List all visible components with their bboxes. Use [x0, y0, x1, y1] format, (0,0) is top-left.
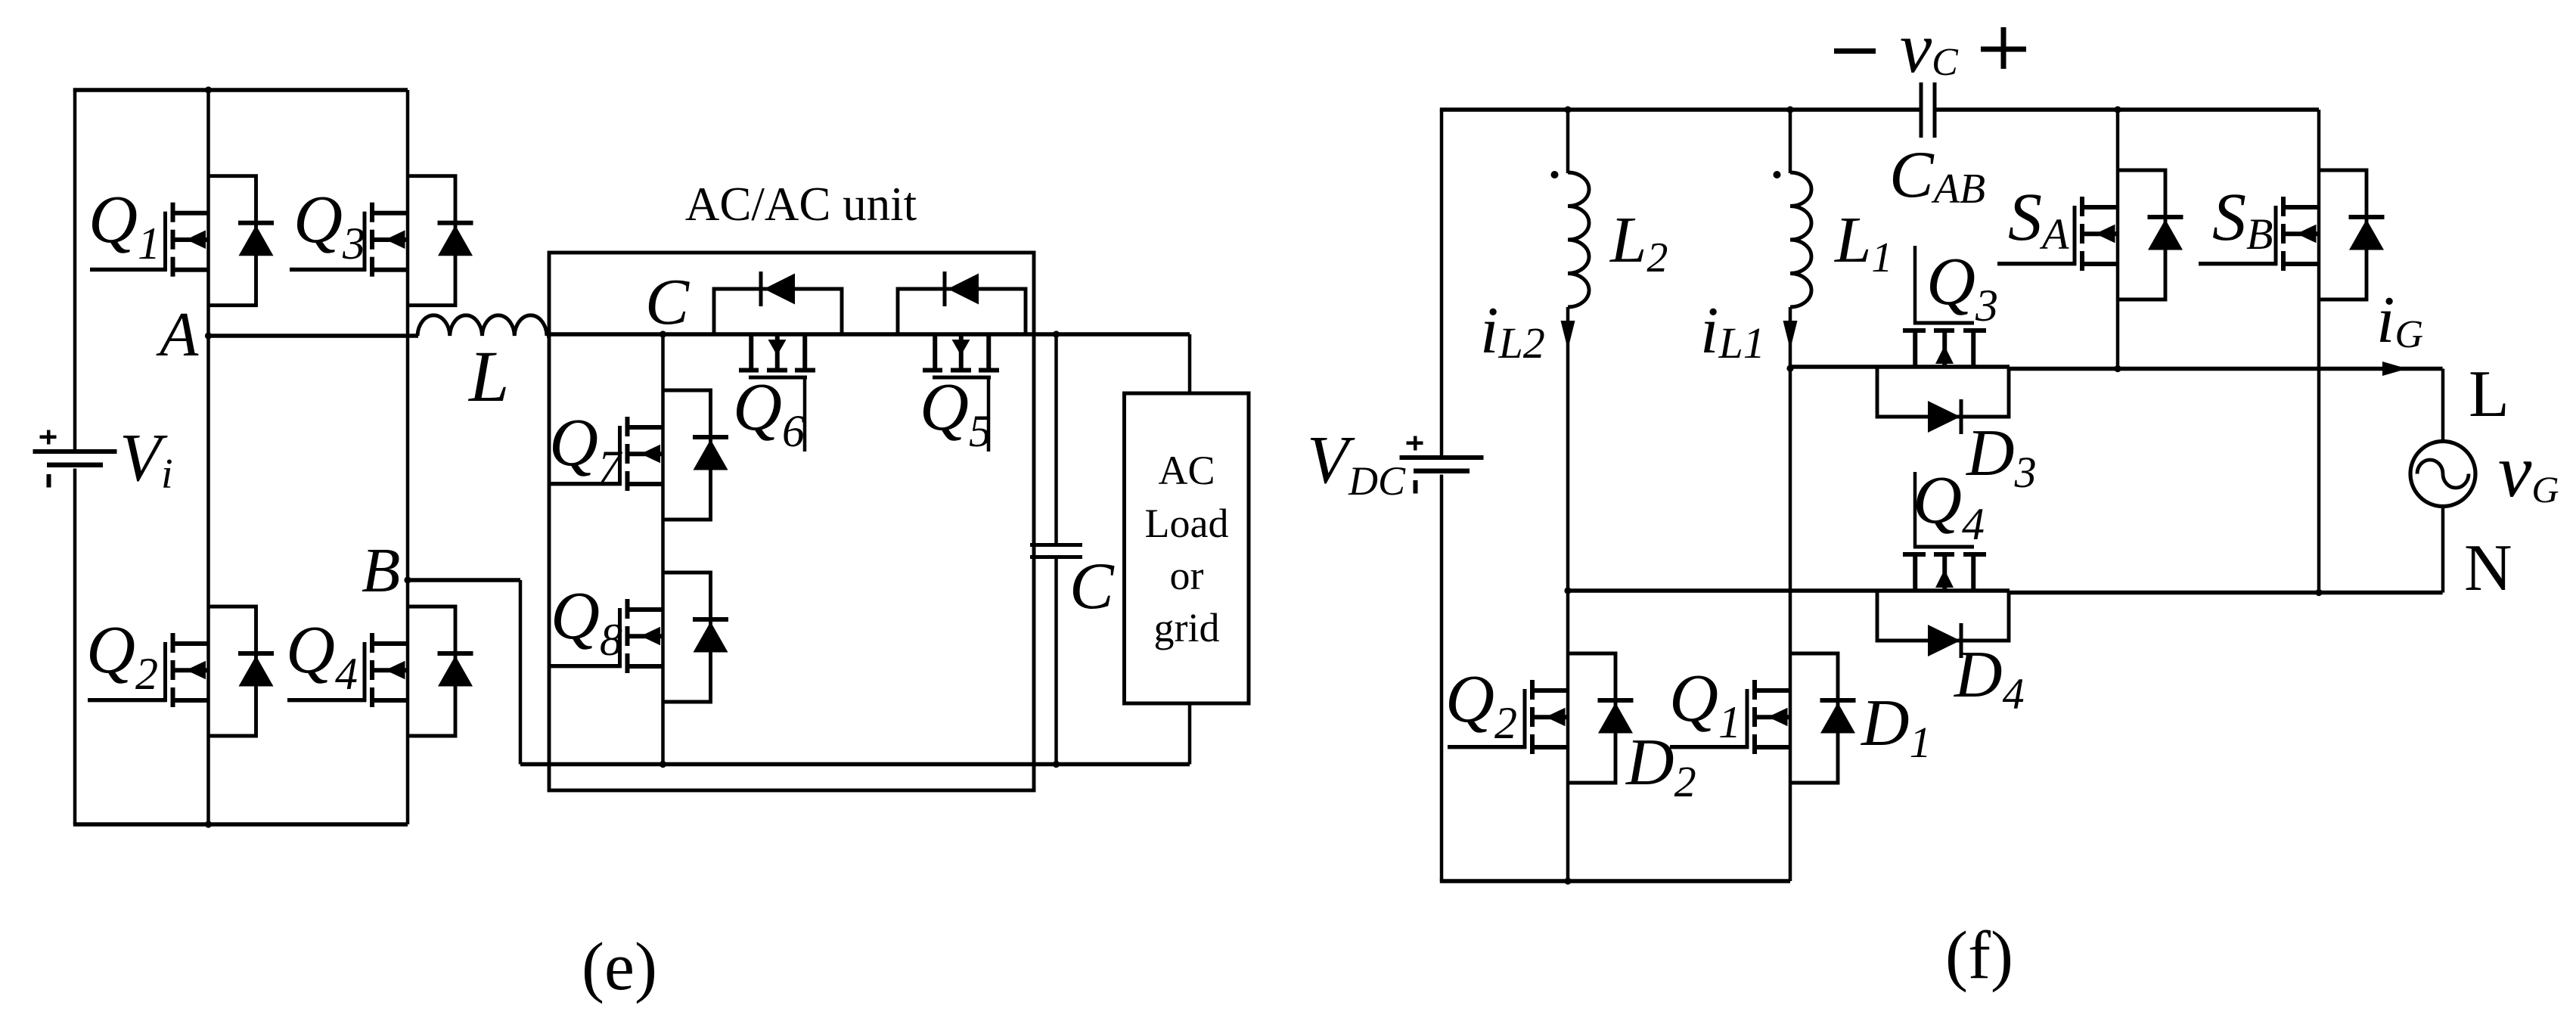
transistor Q5 (MOSFET): [923, 334, 999, 452]
wire: node B to AC/AC unit: [408, 580, 663, 765]
current arrow iL1: [1783, 321, 1798, 349]
wire: grid riser (L side): [2441, 369, 2445, 443]
wire: Q7/Q8 column: [661, 334, 665, 765]
wire: load box bottom lead: [1188, 703, 1192, 765]
node junction dot SA bottom: [2114, 365, 2121, 372]
body diode of Q2 (circuit f): [1568, 653, 1634, 783]
node junction dot L1 bottom: [1786, 365, 1793, 371]
transistor Q4 (MOSFET): [287, 633, 408, 707]
label (f): [1945, 918, 2013, 993]
node junction dot SA top: [2114, 106, 2121, 113]
AC/AC unit box: [549, 253, 1034, 790]
transistor Q6 (MOSFET): [739, 334, 815, 452]
node junction dot Q7Q8 column bottom: [660, 761, 666, 768]
capacitor C: [1030, 334, 1082, 765]
label iL1: [1700, 294, 1765, 368]
body diode of Q3: [408, 176, 473, 306]
svg-text:N: N: [2464, 532, 2512, 605]
AC grid source vG: [2410, 442, 2475, 507]
body diode of Q2: [209, 607, 275, 736]
label Q6: [733, 370, 805, 456]
label node A: [156, 299, 199, 370]
label D4: [1954, 638, 2025, 718]
node junction dot capacitor C bottom: [1053, 761, 1060, 768]
node junction dot top rail / Q1 leg: [205, 86, 212, 93]
svg-text:AC/AC unit: AC/AC unit: [685, 178, 917, 231]
label CAB: [1889, 138, 1985, 213]
transistor Q2 (circuit f) (MOSFET): [1448, 680, 1568, 754]
label AC Load or grid: [1145, 448, 1229, 650]
transistor Q2 (MOSFET): [88, 633, 209, 707]
label L1: [1833, 203, 1892, 281]
label N (grid neutral): [2464, 532, 2512, 605]
svg-text:L: L: [467, 336, 509, 417]
label - vC + polarity: [1834, 8, 2026, 88]
body diode of Q8: [663, 573, 729, 702]
wire: Q3/Q4 leg (node B column): [406, 90, 410, 824]
node junction dot L1 top: [1786, 106, 1793, 113]
current arrow iL2: [1561, 321, 1575, 349]
body diode of Q7: [663, 390, 729, 520]
label D2: [1625, 726, 1696, 806]
label Q2 (circuit f): [1445, 662, 1517, 748]
wire: circuit (f) top rail left of CAB: [1440, 107, 1921, 111]
body diode of Q4: [408, 607, 473, 736]
wire: circuit (e) top rail: [73, 88, 408, 454]
label (e): [582, 929, 657, 1004]
wire: SA column: [2116, 110, 2120, 369]
node junction dot SB bottom: [2315, 589, 2322, 596]
transistor Q1 (MOSFET): [90, 203, 209, 277]
node junction dot capacitor C top: [1053, 331, 1060, 337]
label D3: [1966, 417, 2037, 497]
label Q3: [293, 182, 365, 268]
anti-parallel diode of Q6: [714, 272, 842, 334]
node A junction dot: [205, 332, 212, 339]
wire: grid riser (N side): [2441, 505, 2445, 593]
node junction dot L2 bottom: [1564, 587, 1571, 594]
label Q8: [551, 579, 622, 665]
label node C: [645, 265, 690, 338]
label iG: [2376, 284, 2423, 357]
transistor Q3 (circuit f) (MOSFET): [1903, 246, 1986, 367]
polarity dot L2: [1551, 171, 1559, 178]
label node B: [362, 535, 400, 606]
inductor L2: [1568, 110, 1589, 591]
inductor L1: [1790, 110, 1811, 368]
node junction dot bottom rail / Q2f: [1564, 877, 1571, 884]
wire: circuit (f) left rail: [1440, 110, 1444, 881]
wire: node A to inductor L: [209, 334, 419, 337]
body diode of SA: [2118, 170, 2183, 299]
label Q7: [549, 405, 623, 492]
svg-text:A: A: [156, 299, 199, 370]
svg-text:C: C: [1069, 550, 1115, 623]
AC load box: [1125, 393, 1249, 703]
node B junction dot: [404, 576, 411, 583]
node junction dot L2 top: [1564, 106, 1571, 113]
wire: Q1f column: [1789, 368, 1792, 881]
node junction dot bottom rail / Q2 leg: [205, 821, 212, 827]
svg-text:C: C: [645, 265, 690, 338]
wire: circuit (f) bottom rail: [1440, 879, 1790, 883]
current arrow iG: [2382, 362, 2407, 376]
wire: bottom wire to load: [663, 762, 1190, 766]
svg-text:AC: AC: [1158, 448, 1215, 493]
label L2: [1609, 203, 1668, 281]
label Q3 (circuit f): [1926, 244, 1998, 331]
svg-text:or: or: [1170, 553, 1204, 598]
wire: left rail below Vi: [73, 469, 77, 825]
body diode of SB: [2319, 170, 2385, 299]
label Q2: [86, 613, 158, 699]
diode D4: [1877, 591, 2009, 658]
diode D3: [1877, 367, 2009, 434]
label L (grid line): [2469, 358, 2509, 431]
label AC/AC unit: [685, 178, 917, 231]
label VDC: [1307, 423, 1406, 504]
label Q1: [88, 182, 160, 268]
transistor SA (MOSFET): [1997, 197, 2118, 271]
wire: circuit (f) top rail right of CAB: [1935, 107, 2319, 111]
svg-text:L: L: [2469, 358, 2509, 431]
svg-text:grid: grid: [1154, 605, 1220, 650]
transistor Q4 (circuit f) (MOSFET): [1903, 472, 1986, 591]
svg-text:B: B: [362, 535, 400, 606]
DC source VDC: [1400, 436, 1484, 494]
transistor Q3 (MOSFET): [290, 203, 408, 277]
polarity dot L1: [1774, 171, 1781, 178]
wire: load box top lead: [1188, 334, 1192, 393]
wire: Q2f column: [1566, 591, 1570, 881]
wire: SB column: [2317, 110, 2321, 593]
transistor Q8 (MOSFET): [549, 599, 663, 673]
svg-text:Load: Load: [1145, 501, 1229, 546]
transistor Q1 (circuit f) (MOSFET): [1670, 680, 1790, 754]
label vG: [2498, 429, 2559, 513]
label Vi: [119, 421, 173, 498]
label SA: [2008, 180, 2069, 259]
label D1: [1861, 687, 1932, 767]
svg-text:(f): (f): [1945, 918, 2013, 993]
node C junction dot: [660, 331, 666, 337]
transistor Q7 (MOSFET): [549, 417, 663, 491]
body diode of Q1 (circuit f): [1790, 653, 1856, 783]
body diode of Q1: [209, 176, 275, 306]
wire: mid wire from L1 junction to grid corner: [1790, 367, 2443, 369]
label Q5: [920, 370, 992, 456]
transistor SB (MOSFET): [2199, 197, 2319, 271]
label L (filter inductor): [467, 336, 509, 417]
label Q1 (circuit f): [1669, 661, 1741, 747]
label C (capacitor): [1069, 550, 1115, 623]
label Q4: [286, 613, 358, 699]
wire: node C rail inside AC/AC unit: [549, 332, 1190, 336]
wire: circuit (f) bottom mid wire: [1568, 591, 2443, 593]
label Q4 (circuit f): [1913, 463, 1985, 549]
label SB: [2212, 180, 2273, 259]
DC source Vi: [33, 430, 117, 488]
label iL2: [1480, 294, 1545, 368]
inductor L: [417, 315, 550, 336]
wire: circuit (e) bottom rail: [73, 822, 408, 826]
anti-parallel diode of Q5: [898, 272, 1026, 334]
svg-text:(e): (e): [582, 929, 657, 1004]
capacitor CAB: [1920, 82, 1937, 138]
wire: Q1/Q2 leg (node A column): [206, 90, 210, 824]
